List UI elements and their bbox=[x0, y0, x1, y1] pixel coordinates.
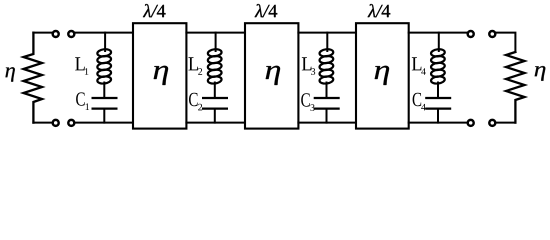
label L4 bbox=[412, 57, 422, 70]
resistor R_source (left termination) bbox=[24, 33, 43, 123]
label L3 bbox=[302, 57, 312, 70]
label lambda/4 above U1 bbox=[143, 4, 166, 17]
label C2 bbox=[189, 93, 198, 106]
capacitor C4 bottom plate bbox=[426, 107, 450, 109]
port terminal circle: output top left bbox=[468, 31, 474, 37]
wire: left resistor bottom to port circle bbox=[33, 122, 52, 124]
label lambda/4 above U3 bbox=[368, 4, 391, 17]
label C1 bbox=[76, 92, 85, 105]
port terminal circle: output top right bbox=[489, 31, 495, 37]
wire: L1 to C1 bbox=[103, 83, 105, 98]
wire: bottom rail U3 to output port bbox=[409, 122, 467, 124]
wire: L2 to C2 bbox=[214, 83, 216, 98]
label lambda/4 above U2 bbox=[255, 4, 278, 17]
port terminal circle: input bottom left bbox=[53, 120, 59, 126]
transmission line section U3 (lambda/4 box) bbox=[356, 23, 409, 128]
label eta inside U1 bbox=[154, 66, 168, 85]
port terminal circle: input top right bbox=[68, 31, 74, 37]
wire: C1 to bottom rail, junction node bbox=[103, 109, 105, 123]
wire: C3 to bottom rail bbox=[326, 109, 328, 123]
inductor L2 coil bbox=[207, 48, 222, 57]
label eta inside U3 bbox=[375, 66, 389, 85]
capacitor C1 bottom plate bbox=[93, 107, 117, 109]
wire: L3 to C3 bbox=[326, 83, 328, 98]
wire: output port to load resistor top bbox=[496, 33, 515, 52]
wire: C4 to bottom rail bbox=[437, 109, 439, 123]
inductor L2 lead from top rail bbox=[215, 33, 217, 51]
resistor R_load (right termination) bbox=[506, 52, 525, 123]
wire: C2 to bottom rail bbox=[214, 109, 216, 123]
label C4 bbox=[413, 93, 422, 106]
inductor L1 lead from top rail bbox=[104, 33, 106, 51]
capacitor C4 top plate bbox=[426, 97, 450, 99]
capacitor C2 top plate bbox=[203, 97, 227, 99]
port terminal circle: input bottom right bbox=[68, 120, 74, 126]
port terminal circle: output bottom right bbox=[489, 120, 495, 126]
label eta (source impedance) bbox=[5, 67, 14, 81]
capacitor C2 bottom plate bbox=[203, 107, 227, 109]
port terminal circle: output bottom left bbox=[468, 120, 474, 126]
inductor L3 coil bbox=[319, 48, 334, 57]
inductor L4 lead from top rail bbox=[438, 33, 440, 51]
label L1 bbox=[75, 57, 85, 70]
label C3 bbox=[301, 93, 310, 106]
wire: top rail U1 to U2, junction at L2 bbox=[186, 32, 245, 34]
transmission line section U1 (lambda/4 box) bbox=[133, 23, 186, 128]
inductor L4 coil bbox=[431, 48, 446, 57]
inductor L3 lead from top rail bbox=[326, 33, 328, 51]
wire: bottom rail U2 to U3 bbox=[298, 122, 356, 124]
capacitor C3 bottom plate bbox=[315, 107, 339, 109]
inductor L1 coil bbox=[97, 48, 112, 57]
wire: top rail U2 to U3, junction at L3 bbox=[298, 32, 356, 34]
capacitor C1 top plate bbox=[93, 97, 117, 99]
wire: load resistor bottom to output port bbox=[496, 122, 515, 124]
wire: top rail U3 to output port, junction at L4 bbox=[409, 32, 467, 34]
wire: bottom rail from input port to transmission-line U1 bbox=[75, 122, 133, 124]
port terminal circle: input top left bbox=[53, 31, 59, 37]
wire: bottom rail U1 to U2 bbox=[186, 122, 245, 124]
label eta (load impedance) bbox=[535, 66, 546, 81]
label L2 bbox=[188, 57, 198, 70]
wire: left resistor top to port circle bbox=[33, 32, 52, 34]
transmission line section U2 (lambda/4 box) bbox=[245, 23, 298, 128]
label eta inside U2 bbox=[266, 66, 280, 85]
capacitor C3 top plate bbox=[315, 97, 339, 99]
wire: top rail from input port to transmission-line U1, junction at node 1 bbox=[75, 32, 133, 34]
wire: L4 to C4 bbox=[437, 83, 439, 98]
